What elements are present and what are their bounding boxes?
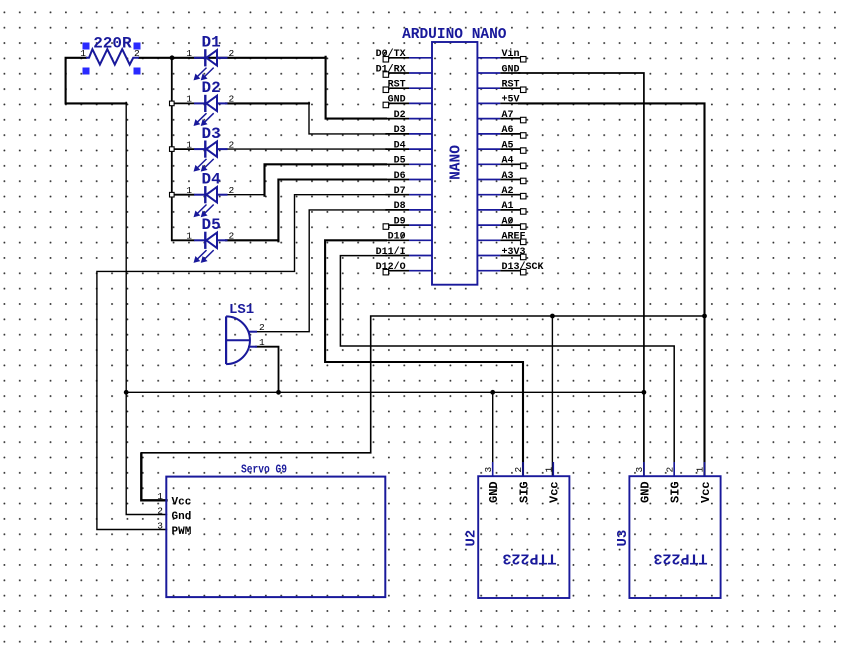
wire R1.2 - D1 row: [139, 57, 326, 59]
svg-text:A5: A5: [502, 140, 514, 151]
svg-text:GND: GND: [638, 481, 652, 503]
svg-text:D4: D4: [202, 171, 222, 189]
pin RST (right 3): [477, 80, 526, 93]
svg-text:1: 1: [186, 231, 192, 242]
wire to nano D6: [278, 180, 386, 242]
svg-text:ARDUINO NANO: ARDUINO NANO: [402, 27, 507, 43]
op-amp U1 : Arduino Nano body: [432, 42, 477, 285]
svg-text:2: 2: [229, 231, 235, 242]
svg-text:1: 1: [544, 467, 555, 473]
pin D13/SCK (right 15): [477, 261, 543, 275]
pin A6 (right 6): [477, 125, 526, 138]
pin D3 (left 6): [385, 125, 432, 136]
svg-text:Vcc: Vcc: [699, 481, 713, 503]
svg-text:Servo G9: Servo G9: [241, 463, 287, 477]
svg-text:Vcc: Vcc: [548, 481, 562, 503]
svg-text:U3: U3: [615, 530, 631, 547]
svg-text:TTP223: TTP223: [502, 549, 556, 566]
svg-text:3: 3: [157, 520, 163, 531]
pin A0 (right 12): [477, 216, 526, 229]
pin AREF (right 13): [477, 232, 526, 245]
pin D4 (left 7): [385, 140, 432, 151]
resistor R1 220R: [80, 34, 140, 64]
connector Servo G9: [157, 463, 385, 598]
svg-text:U2: U2: [463, 530, 479, 547]
pin GND (left 4): [383, 95, 432, 108]
svg-text:1: 1: [186, 139, 192, 150]
wire gnd rail: [126, 391, 644, 393]
svg-text:1: 1: [157, 491, 163, 502]
svg-text:2: 2: [229, 48, 235, 59]
svg-text:Vin: Vin: [502, 48, 520, 60]
wire to nano D3: [309, 102, 386, 133]
pin D2 (left 5): [385, 110, 432, 121]
selection handles of R1: [83, 43, 141, 75]
svg-text:D6: D6: [394, 171, 406, 182]
svg-text:A2: A2: [502, 186, 514, 197]
LED D2: [172, 79, 235, 125]
svg-text:3: 3: [483, 467, 494, 473]
svg-text:D5: D5: [202, 216, 221, 234]
pin Vin (right 1): [477, 48, 526, 62]
wire D5.2 right: [226, 239, 278, 241]
wire gnd drop to servo Gnd: [126, 102, 166, 514]
pin end marker D3.1: [170, 147, 175, 152]
svg-text:TTP223: TTP223: [653, 549, 707, 566]
buzzer LS1: [226, 302, 265, 364]
wire D2.2 right: [226, 102, 309, 104]
pin D9 (left 12): [383, 216, 432, 229]
pin A4 (right 8): [477, 156, 526, 169]
svg-text:2: 2: [134, 48, 140, 59]
wire nano GND to U3 GND: [519, 73, 644, 476]
svg-text:A3: A3: [502, 171, 514, 182]
svg-text:A4: A4: [502, 156, 514, 167]
svg-text:GND: GND: [502, 64, 520, 75]
LED D4: [172, 171, 235, 217]
svg-text:SIG: SIG: [669, 481, 683, 503]
slashed zero marks: [383, 50, 513, 238]
svg-text:D2: D2: [202, 79, 221, 97]
svg-text:1: 1: [186, 94, 192, 105]
pin A5 (right 7): [477, 140, 526, 153]
svg-text:1: 1: [695, 467, 706, 473]
pin +5V (right 4): [477, 95, 520, 106]
svg-text:220R: 220R: [93, 34, 132, 52]
pin D12/O (left 15): [376, 261, 432, 275]
svg-text:D4: D4: [394, 140, 406, 151]
wire nano D7 to servo PWM: [97, 195, 386, 530]
wire servo Vcc drop: [141, 454, 166, 501]
wire LS1.1 to gnd rail: [256, 347, 279, 393]
wire +5V rail toward servo: [141, 316, 704, 453]
pin RST (left 3): [383, 80, 432, 93]
svg-text:2: 2: [664, 467, 675, 473]
svg-text:D5: D5: [394, 156, 406, 167]
pin D0/TX (left 1): [376, 48, 432, 62]
pin D8 (left 11): [385, 201, 432, 212]
junction R1.2/D1: [170, 55, 175, 60]
svg-text:2: 2: [157, 505, 163, 516]
pin D1/RX (left 2): [376, 63, 432, 77]
pin A7 (right 5): [477, 110, 526, 123]
LED D1: [186, 34, 234, 80]
junction LS1 gnd: [276, 390, 281, 395]
svg-text:RST: RST: [502, 80, 520, 91]
svg-text:LS1: LS1: [229, 302, 254, 318]
pin end marker D4.1: [170, 192, 175, 197]
pin GND (right 2): [477, 64, 520, 75]
svg-text:D1: D1: [202, 34, 221, 52]
wire nano D10 to U2 SIG: [325, 240, 523, 476]
wire gnd rail to U2 GND: [492, 392, 494, 476]
wire D1.2 to nano D2: [326, 57, 386, 119]
LED D5: [172, 216, 235, 262]
svg-text:3: 3: [634, 467, 645, 473]
svg-text:D11/I: D11/I: [376, 246, 406, 258]
pin D10 (left 13): [385, 232, 432, 243]
svg-text:2: 2: [259, 322, 265, 333]
wire nano D11 to U3 SIG: [340, 256, 674, 476]
svg-text:PWM: PWM: [172, 526, 192, 538]
svg-text:D7: D7: [394, 186, 406, 197]
svg-text:SIG: SIG: [517, 481, 531, 503]
wire D3.2 to nano D4: [226, 148, 386, 150]
svg-text:D12/O: D12/O: [376, 261, 406, 273]
svg-text:NANO: NANO: [449, 145, 465, 180]
svg-text:D1/RX: D1/RX: [376, 63, 406, 75]
touch sensor U3 TTP223: [615, 462, 721, 598]
svg-text:1: 1: [259, 337, 265, 348]
svg-text:D0/TX: D0/TX: [376, 48, 406, 60]
pin D7 (left 10): [385, 186, 432, 197]
svg-text:GND: GND: [487, 481, 501, 503]
svg-text:A6: A6: [502, 125, 514, 136]
wire nano +5V to U3 Vcc: [519, 103, 705, 476]
pin D6 (left 9): [385, 171, 432, 182]
svg-text:1: 1: [186, 185, 192, 196]
svg-text:RST: RST: [388, 80, 406, 91]
svg-text:1: 1: [80, 48, 86, 59]
svg-text:A7: A7: [502, 110, 514, 121]
wire LED anode bus: [171, 58, 173, 241]
wire D4.2 right: [226, 194, 265, 196]
wire nano D8 to LS1.2: [256, 210, 386, 332]
svg-text:2: 2: [229, 185, 235, 196]
junction gnd rail right: [642, 390, 647, 395]
svg-text:2: 2: [513, 467, 524, 473]
pin A3 (right 9): [477, 171, 526, 184]
junction U2 vcc tap: [550, 314, 555, 319]
svg-text:D2: D2: [394, 110, 406, 121]
pin D5 (left 8): [385, 156, 432, 167]
wire R1.1 to gnd run: [66, 58, 127, 104]
svg-text:2: 2: [229, 139, 235, 150]
pin A1 (right 11): [477, 201, 526, 214]
junction U2 gnd: [490, 390, 495, 395]
pin D11/I (left 14): [376, 246, 432, 258]
pin +3V3 (right 14): [477, 247, 526, 260]
svg-text:Gnd: Gnd: [172, 511, 192, 523]
svg-text:2: 2: [229, 94, 235, 105]
LED D3: [172, 125, 235, 171]
svg-text:D3: D3: [202, 125, 221, 143]
pin end marker D2.1: [170, 101, 175, 106]
junction +5V tap: [702, 314, 707, 319]
svg-text:D8: D8: [394, 201, 406, 212]
svg-text:GND: GND: [388, 95, 406, 106]
touch sensor U2 TTP223: [463, 462, 569, 598]
svg-text:D9: D9: [394, 216, 406, 227]
svg-text:D10: D10: [388, 232, 406, 243]
svg-text:+5V: +5V: [502, 95, 520, 106]
svg-text:1: 1: [186, 48, 192, 59]
wire +5V rail to U2 Vcc: [551, 316, 553, 476]
svg-text:D3: D3: [394, 125, 406, 136]
wire to nano D5: [265, 164, 387, 195]
svg-text:A1: A1: [502, 201, 514, 212]
pin A2 (right 10): [477, 186, 526, 199]
svg-text:Vcc: Vcc: [172, 497, 192, 509]
junction gnd rail left: [124, 390, 129, 395]
